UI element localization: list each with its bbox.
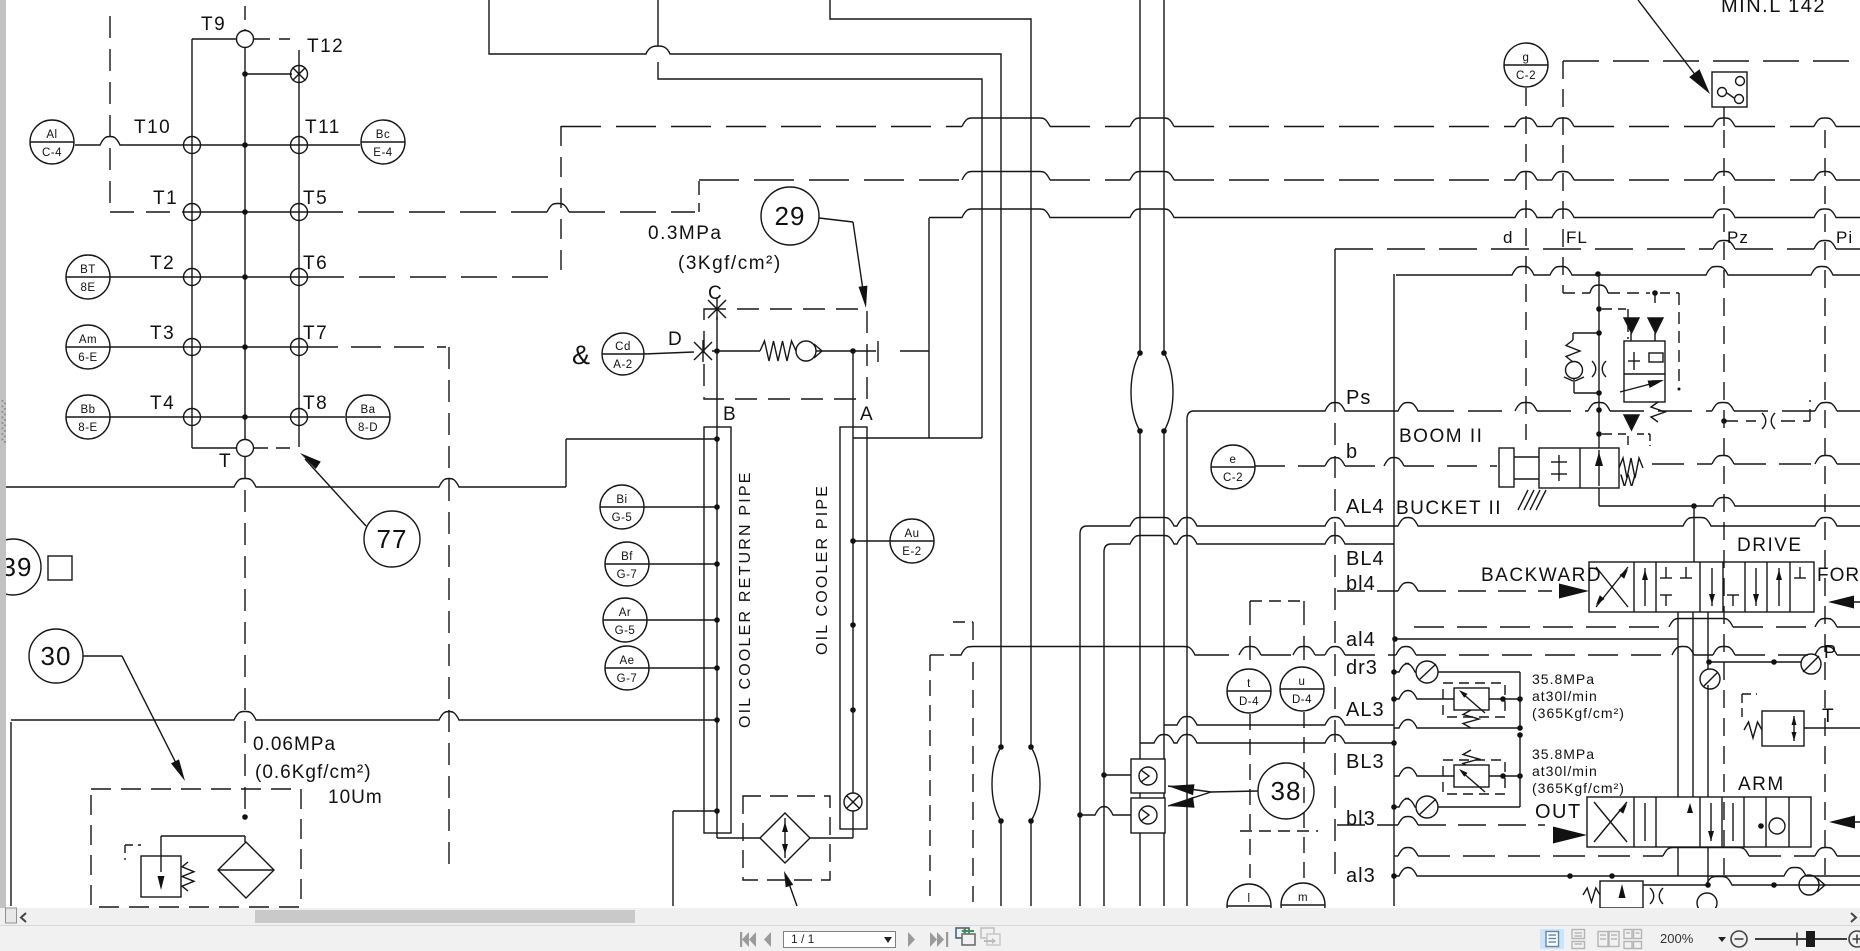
dashed box relief1 [1443,683,1505,717]
leader arrow cooler [787,878,797,906]
port circle Am [66,325,110,369]
dashed bracket tu [1250,600,1304,602]
wire dashed x1304 low [1303,712,1305,878]
solenoid arrow out [1553,827,1587,844]
wire T9 stub [244,6,246,30]
wire row T2-T6 [110,276,307,278]
net y856 dashed [1394,855,1398,857]
check box 2 [1131,798,1165,833]
port circle BT [66,255,110,299]
wire forward stub [1841,601,1860,603]
wire row T10-T11 [75,137,360,146]
junction [242,414,248,420]
wire cooler right [810,837,853,839]
wire feeder L2 [658,0,982,438]
wire check2 feed [1080,807,1131,816]
orifice y421 [1762,413,1775,429]
net y627 dashed [1414,626,1669,628]
t valve box [1762,711,1804,746]
wire g drop [1525,88,1527,440]
node T bottom [237,440,254,457]
block left vertical [1393,274,1395,906]
wire cooler feed right [853,437,982,439]
view two continuous [1624,930,1642,949]
wire drop x1104 [1103,552,1105,906]
wire AL3 link [1489,698,1520,700]
wire tank line y720 [11,712,717,721]
check valve bl3 [1416,796,1438,818]
symbol plug square [48,556,72,580]
wire riser x566 [565,439,567,487]
wire dashed Pz x1724 [1723,130,1725,875]
node T6 [291,269,308,286]
pilot solenoid box [1624,341,1665,402]
wire arm right stub [1842,821,1860,823]
port circle bottom1 [1227,884,1271,928]
bypass spring [760,341,796,361]
hose B right [1028,744,1034,750]
pipe return center [716,427,718,838]
wire feeder L3 [830,0,1031,747]
boom valve body [1539,448,1619,488]
wire filter top [161,835,245,837]
horizontal scrollbar [0,908,1860,925]
check valve dr3 [1416,661,1438,683]
junction [242,142,248,148]
vent triangle 3 [1624,415,1639,430]
stub x1599 y309 [1602,308,1626,310]
wire p line [1708,661,1801,663]
wire bl3 check [1394,799,1416,808]
wire main return y487 [6,479,566,488]
dashed bracket x930 [929,655,931,902]
port circle Au [890,519,934,563]
bus row2 dashed [699,179,962,181]
wire drain left [673,810,717,812]
t valve spring [1744,722,1762,738]
wire relief drop2 [1519,735,1521,807]
dashed box bypass [704,309,867,399]
pipe cooler center [852,427,854,838]
net AL4 right [1394,518,1860,527]
wire T6 row dashed [308,276,557,278]
bypass check valve [796,341,816,361]
junction pipe dots [850,622,856,628]
wire dashed vertical x449 [448,347,450,871]
wire al4 plateau [950,647,1199,656]
wire boom drain [1598,488,1600,506]
port circle u [1280,667,1324,711]
wire al4 dashed right [1394,654,1396,656]
wire B drop [716,351,718,427]
port circle P [1801,654,1821,674]
wire C drop [716,317,718,351]
block corner outer [1334,249,1336,390]
wire hose right x1164 [1163,0,1165,353]
wire switch stem [1723,107,1725,126]
dashed row y293 [1563,292,1590,294]
node T4 [184,409,201,426]
wire row T1-T5 [184,211,307,213]
pipe oil cooler [840,427,867,829]
nav next [908,932,915,947]
view single page selected [1540,929,1564,949]
callout circle 39 [0,539,41,595]
wire check1 feed [1104,774,1131,776]
wire drop x1080 [1079,534,1081,906]
node T5 [291,204,308,221]
cooler diamond [760,813,810,863]
bus row y275 [1396,267,1860,276]
wire T5 row corner up [698,181,700,212]
port C [708,300,726,318]
relief valve 30 [141,856,181,897]
port circle Bc [361,120,405,164]
stub x1599 y434 [1602,433,1626,435]
net bl4 pilot [1337,590,1398,592]
wire BL3 link [1489,775,1520,777]
wire t valve out [1804,727,1860,729]
zoom out [1731,931,1747,947]
wire bottom dashed [254,447,296,449]
wire hose left x1140 [1139,0,1141,353]
port circle Al [30,120,74,164]
boom hatches [1518,490,1528,510]
node T10 [184,137,201,154]
dashed box relief2 [1443,760,1505,794]
leader 30 [83,655,122,657]
relief spring BL3 [1463,750,1479,768]
dashed bracket x973 [953,621,973,623]
wire T5 row dashed left [110,211,184,213]
bottom valve [1600,881,1643,908]
bus row3 solid [929,209,1860,218]
wire dashed vertical x110 [109,16,111,212]
vent triangle 2 [1648,318,1663,333]
wire u leader [1303,601,1305,667]
wire row T3-T7 [110,346,307,348]
wire cooler left [717,837,760,839]
junction al4 [1392,636,1398,642]
wire A drop [852,351,854,427]
port circle Bf [605,542,649,586]
leader 29 [819,218,853,222]
wire AL3 feed [1164,717,1394,726]
wire al4 dashed mid [1199,654,1239,656]
port circle bottom2 [1281,883,1325,927]
pipe oil cooler return [704,427,731,833]
bus row d dashed [1335,248,1713,250]
scrollbar right arrow [1851,913,1856,922]
filter diamond [218,842,274,898]
leader 77 [305,459,366,526]
solenoid arrow forward [1828,596,1854,609]
view two pages [1598,932,1619,947]
wire center column [244,47,246,440]
dashed top boundary [1563,60,1860,62]
pressure switch [1712,72,1747,107]
port D [694,342,712,360]
crossed port on pipe [844,793,862,811]
scrollbar left arrow [21,913,26,922]
relief valve BL3 [1454,765,1489,787]
wire cooler feed y439 [566,438,717,440]
check box 1 [1131,759,1165,793]
orifice on x1599 [1592,361,1606,377]
boom valve spring [1619,458,1643,478]
node T11 [291,137,308,154]
port circle g [1504,43,1548,87]
node T8 [291,409,308,426]
relief spring AL3 [1463,710,1479,728]
wire drive feed [1693,506,1695,562]
node T1 [184,204,201,221]
callout circle 30 [29,629,83,683]
dashed bracket bottom [1240,830,1318,832]
junction [242,274,248,280]
net dr3 [1394,664,1416,673]
wire T12 link [245,73,292,75]
sidebar splitter [0,0,6,922]
wire Au leader [853,540,890,542]
scrollbar corner box [6,908,17,923]
nav prev [764,932,771,947]
wire Cd leader [644,352,694,354]
leader arrow switch [1638,0,1703,85]
port circle e [1211,445,1255,489]
dashed box filter [91,789,301,907]
history fwd icon [981,928,1000,945]
wire bottom links [1643,877,1860,886]
wire al4 solid right [1394,638,1678,640]
solenoid arrow arm right [1829,816,1855,829]
wire t leader [1249,601,1251,669]
dashed bracket t [1741,694,1743,719]
wire x1599 pilot [1598,274,1600,448]
zoom in [1849,931,1860,947]
boom valve cap [1499,448,1514,487]
zoom slider [1755,938,1847,940]
wire relief riser [160,836,162,856]
wire b row left [1255,465,1325,467]
wire T9 top-left [192,38,236,40]
wire dashed x1250 low [1249,714,1251,878]
orifice bottom [1650,888,1663,904]
wire below arm [1677,847,1679,876]
wire dr3 right [1438,671,1520,673]
wire BL3 feed [1140,735,1394,744]
callout 38 arrows [1168,784,1195,795]
wire row T4-T8 [110,416,345,418]
nav last [930,932,948,947]
dropdown arrow [884,937,892,942]
net AL3 line [1394,691,1454,700]
wire Ar leader [647,619,717,621]
wire relief drop1 [1519,672,1521,728]
solenoid arrow drive [1559,584,1589,599]
wire bottom row [192,447,236,449]
cooler arrow [784,818,786,858]
node T3 [184,339,201,356]
net y506 [1599,498,1860,507]
wire Ae leader [649,667,717,669]
relief valve AL3 [1454,688,1489,710]
toolbar [0,925,1860,951]
wire drop x1187 [1187,411,1194,419]
wire dashed x1563 [1562,61,1564,293]
dashed bracket pilot [1652,290,1658,296]
wire riser x929 [928,218,930,438]
vent triangle 1 [1624,318,1639,333]
wire dashed vertical x561 [560,126,562,277]
wire left border [10,722,12,906]
wire Bi leader [644,506,717,508]
wire verticals drive-arm [1677,612,1679,797]
callout circle 38 [1211,791,1258,792]
port circle Bi [600,485,644,529]
wire T5 row dashed [307,211,547,213]
node T7 [291,339,308,356]
wire filter stem [244,836,246,842]
junction [242,344,248,350]
wire Bf leader [649,563,717,565]
drive valve body [1589,562,1814,612]
junction [242,209,248,215]
wire feeder L1 [489,0,1001,747]
wire AL4 feed [1080,526,1087,534]
net Ps dashed [1420,410,1515,412]
net b dashed right [1652,463,1712,465]
zoom dropdown arrow [1718,937,1726,942]
bus row1 dashed [561,126,962,128]
node T9 [237,31,254,48]
port circle Bb [66,395,110,439]
callout circle 29 [761,187,819,245]
check circle bottom [1697,893,1717,913]
wire column right [298,50,300,447]
cooler dashed box [743,796,830,880]
net bl3 pilot dashed [1337,824,1398,826]
wire BL4 feed [1104,544,1111,552]
net AL3 y728 [1394,720,1520,729]
wire dashed center drop [244,457,246,814]
wire column left [191,39,193,448]
wire T stub [900,350,929,352]
arm valve body [1587,797,1811,847]
port circle Cd [602,333,644,375]
node T2 [184,269,201,286]
callout circle 77 [364,511,420,567]
wire bypass right [816,350,876,352]
node T12 crossed port [291,66,308,83]
wire dashed Pi x1825 [1824,130,1826,875]
check valve p [1700,669,1720,689]
wire al4 dash left [930,654,950,656]
nav first page [740,932,756,947]
pilot loop [1573,332,1599,334]
history back icon [956,928,975,945]
port circle Ae [605,646,649,690]
view continuous [1572,930,1585,949]
net al3 [1394,868,1860,877]
port circle t [1227,669,1271,713]
wire T7 row dashed [308,346,446,348]
port circle Ar [603,598,647,642]
pilot arrow [1620,382,1658,392]
net Ps solid [1194,403,1420,412]
port T bar [877,341,879,362]
port circle Ba [346,395,390,439]
net BL3 line [1394,768,1454,777]
hose B left [998,744,1004,750]
wire bypass center [712,350,760,352]
wire T9 right dashed [254,38,290,40]
pilot spring W [1651,402,1665,422]
